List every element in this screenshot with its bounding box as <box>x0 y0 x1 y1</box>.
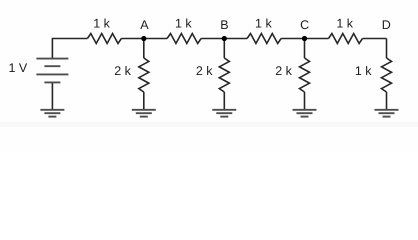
faint band near bottom <box>0 122 418 128</box>
wire node B down <box>223 39 225 59</box>
resistor R2 1 k (series, A to B) <box>167 34 201 44</box>
wire node A to R2 <box>144 38 167 40</box>
svg-text:2 k: 2 k <box>196 64 213 78</box>
svg-text:1 k: 1 k <box>255 17 272 31</box>
svg-text:1 k: 1 k <box>336 17 353 31</box>
wire node C down <box>304 39 306 59</box>
svg-text:2 k: 2 k <box>275 64 292 78</box>
wire R1 to node A <box>121 38 143 40</box>
svg-text:1 V: 1 V <box>9 61 28 75</box>
wire R5 to ground <box>143 92 145 110</box>
wire: battery top stub and main top rail with series resistors <box>52 34 391 110</box>
ground (node C branch) <box>293 110 317 117</box>
resistor R1 1 k (series, source to A) <box>87 34 121 44</box>
resistor R3 1 k (series, B to C) <box>247 34 281 44</box>
svg-text:B: B <box>220 18 228 32</box>
svg-text:1 k: 1 k <box>355 64 372 78</box>
svg-text:A: A <box>140 18 149 32</box>
wire R6 to ground <box>223 92 225 110</box>
wire battery- to ground <box>51 82 53 109</box>
resistor R6 2 k (shunt at B) <box>219 58 229 92</box>
svg-text:C: C <box>300 18 309 32</box>
wire R4 to node D corner <box>363 38 387 40</box>
wire node D down <box>386 39 388 59</box>
ground (node A branch) <box>132 110 156 117</box>
wire R2 to node B <box>201 38 224 40</box>
resistor R7 2 k (shunt at C) <box>300 58 310 92</box>
resistor R8 1 k (shunt at D) <box>382 58 392 92</box>
wire node B to R3 <box>224 38 247 40</box>
wire R8 to ground <box>386 92 388 110</box>
svg-text:D: D <box>382 18 391 32</box>
wire R3 to node C <box>281 38 304 40</box>
ground (node B branch) <box>212 110 236 117</box>
wire node A down <box>143 39 145 59</box>
node B junction dot <box>222 36 227 41</box>
resistor R4 1 k (series, C to D) <box>329 34 363 44</box>
node A junction dot <box>141 36 146 41</box>
wire R7 to ground <box>304 92 306 110</box>
ground (node D branch) <box>375 110 399 117</box>
ground (battery) <box>40 110 64 117</box>
wire battery+ to node A rail <box>52 39 87 59</box>
wire node C to R4 <box>305 38 329 40</box>
svg-text:1 k: 1 k <box>93 17 110 31</box>
svg-text:1 k: 1 k <box>175 17 192 31</box>
node C junction dot <box>302 36 307 41</box>
svg-text:2 k: 2 k <box>114 64 131 78</box>
resistor R5 2 k (shunt at A) <box>139 58 149 92</box>
battery V1 1 V <box>36 59 68 83</box>
